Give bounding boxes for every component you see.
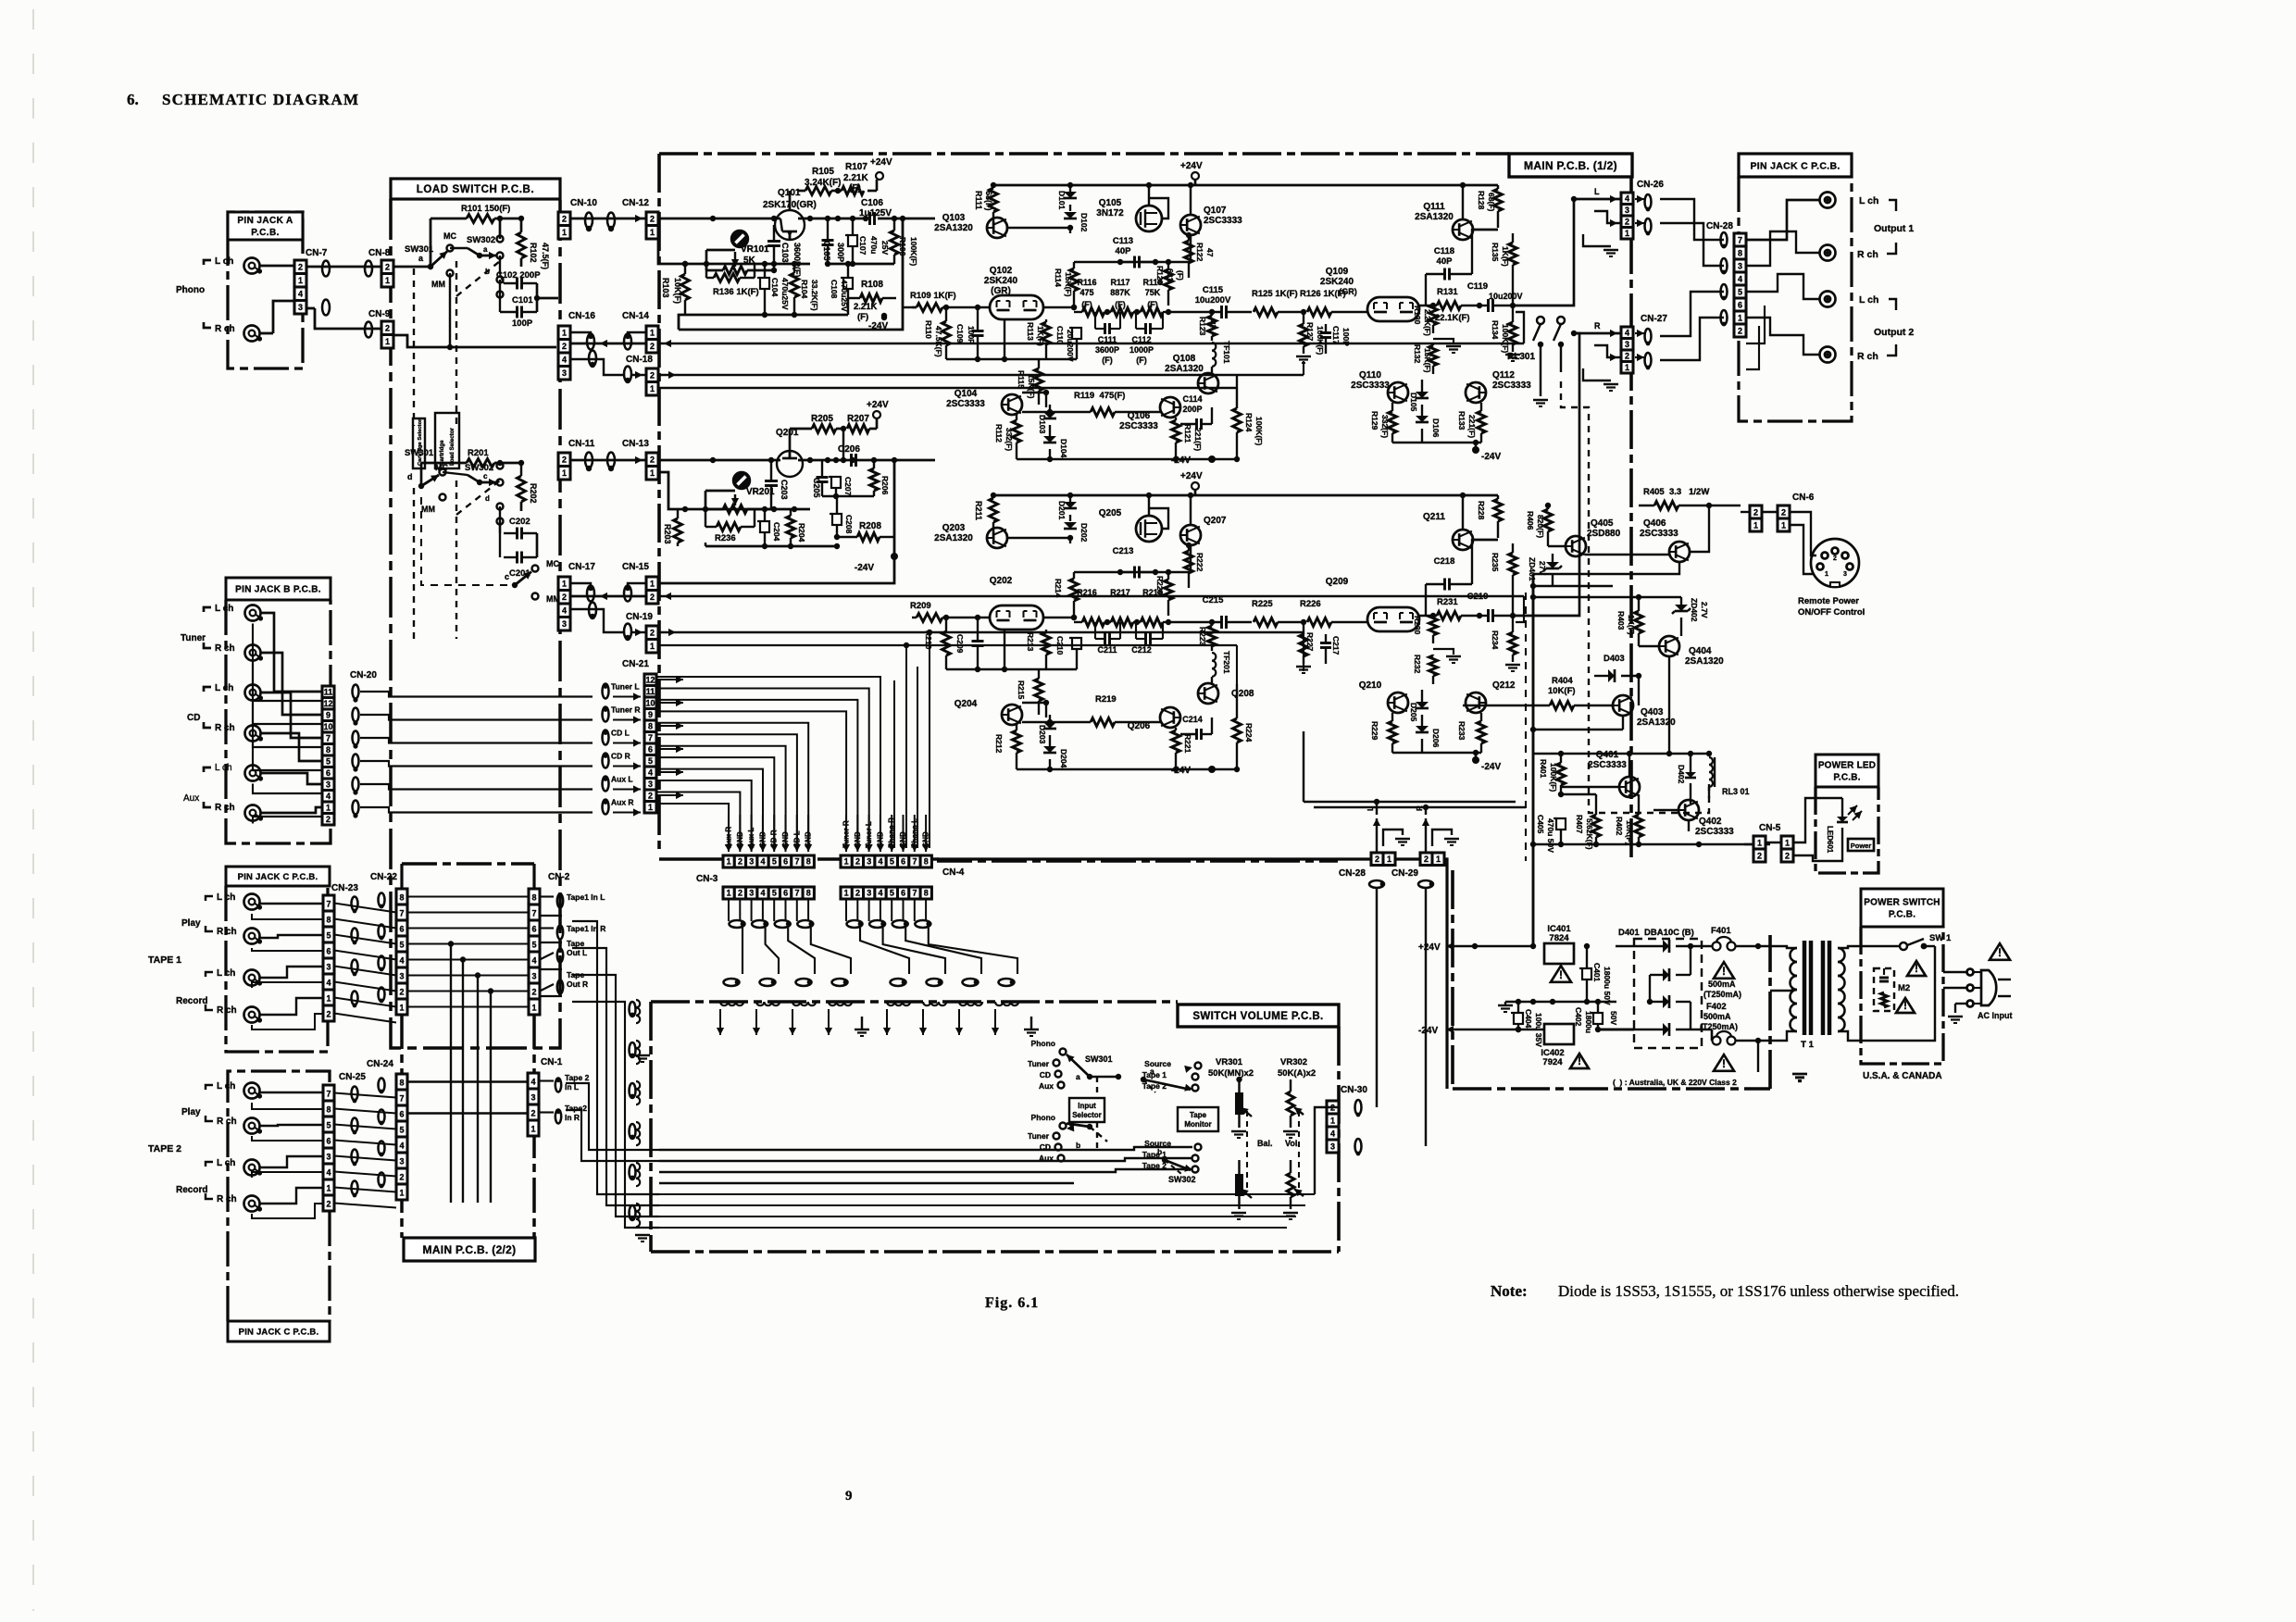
long bus wires mid bbox=[683, 796, 937, 811]
capacitor C211 bbox=[1095, 622, 1120, 655]
svg-text:22.1K(F): 22.1K(F) bbox=[1435, 313, 1469, 323]
top row gnds bbox=[806, 1017, 1039, 1036]
svg-text:!: ! bbox=[1578, 1054, 1581, 1067]
resistor R236 bbox=[705, 509, 755, 543]
svg-text:2SC3333: 2SC3333 bbox=[1351, 381, 1390, 391]
PIN JACK C P.C.B. tape2 box bbox=[228, 1071, 330, 1341]
svg-text:R134: R134 bbox=[1491, 320, 1500, 340]
svg-text:8: 8 bbox=[648, 721, 653, 730]
plug ovals CN-8 CN-9 bbox=[365, 261, 372, 338]
PIN JACK C P.C.B. tape1 box bbox=[226, 867, 330, 1052]
cd jack R bbox=[245, 726, 264, 742]
svg-text:4: 4 bbox=[879, 889, 883, 898]
capacitor C114 bbox=[1180, 394, 1212, 430]
loom wires CN-20 to CN-21 bbox=[360, 692, 593, 813]
transistor Q107 bbox=[1180, 182, 1242, 235]
-24V terminal ch2 bbox=[855, 553, 898, 573]
tape crossing wires bbox=[448, 941, 493, 1203]
wire feedback ch2 long4 bbox=[658, 645, 1237, 684]
svg-text:D401 DBA10C (B): D401 DBA10C (B) bbox=[1618, 928, 1694, 938]
connector CN-28 bottom bbox=[1339, 853, 1395, 879]
svg-text:5: 5 bbox=[772, 889, 777, 898]
svg-text:2SC3333: 2SC3333 bbox=[1588, 760, 1627, 770]
svg-text:Selector: Selector bbox=[1072, 1111, 1102, 1119]
svg-text:1: 1 bbox=[1753, 520, 1758, 530]
wire CN10-12 bbox=[570, 215, 646, 222]
transistor Q402 bbox=[1639, 798, 1734, 837]
capacitor C108 bbox=[830, 261, 853, 312]
svg-text:L ch: L ch bbox=[1859, 195, 1878, 206]
resistor R215 bbox=[1017, 669, 1043, 715]
svg-text:ON/OFF Control: ON/OFF Control bbox=[1798, 607, 1865, 618]
svg-text:R114: R114 bbox=[1054, 268, 1063, 287]
svg-text:2: 2 bbox=[326, 1200, 331, 1209]
resistor R123 bbox=[1198, 312, 1217, 341]
resistor R127 bbox=[1296, 309, 1325, 363]
svg-text:C402: C402 bbox=[1574, 1007, 1583, 1027]
tape1 rec jack R bbox=[244, 1007, 263, 1023]
svg-text:Out R: Out R bbox=[567, 979, 588, 989]
svg-text:Record: Record bbox=[176, 996, 207, 1006]
svg-text:+24V: +24V bbox=[870, 157, 892, 168]
tuner jack R bbox=[245, 645, 264, 661]
output labels bbox=[1857, 195, 1914, 362]
svg-text:500mA: 500mA bbox=[1708, 979, 1736, 989]
svg-text:CN-18: CN-18 bbox=[626, 355, 653, 365]
svg-text:2SC3333: 2SC3333 bbox=[1119, 421, 1158, 431]
capacitor C405 bbox=[1536, 802, 1566, 853]
svg-text:L ch: L ch bbox=[215, 763, 232, 773]
svg-text:1: 1 bbox=[650, 642, 655, 651]
svg-text:3: 3 bbox=[1625, 206, 1629, 215]
svg-text:40P: 40P bbox=[1116, 246, 1132, 256]
svg-text:Monitor: Monitor bbox=[1184, 1120, 1211, 1129]
svg-text:4: 4 bbox=[1738, 274, 1742, 283]
svg-text:+24V: +24V bbox=[1180, 161, 1203, 171]
svg-text:1: 1 bbox=[385, 337, 390, 346]
connector CN-24 bbox=[367, 1059, 407, 1200]
svg-text:R111: R111 bbox=[974, 191, 983, 210]
switch SW301 lower bbox=[405, 448, 448, 514]
svg-text:Phono: Phono bbox=[1031, 1039, 1055, 1048]
capacitor C201 bbox=[500, 521, 537, 579]
resistor R222 bbox=[1185, 545, 1205, 588]
svg-text:Q402: Q402 bbox=[1699, 817, 1722, 827]
svg-text:Q107: Q107 bbox=[1204, 206, 1227, 216]
svg-text:Q110: Q110 bbox=[1359, 370, 1381, 381]
svg-text:C107: C107 bbox=[858, 236, 867, 256]
plug ovals CN-16/14/18 bbox=[587, 333, 631, 383]
resistor R125 bbox=[1252, 289, 1305, 317]
+24V terminal 1 bbox=[1180, 471, 1203, 495]
svg-text:Note:: Note: bbox=[1491, 1282, 1528, 1300]
resistor R217 bbox=[1104, 588, 1133, 627]
svg-text:POWER SWITCH: POWER SWITCH bbox=[1864, 898, 1940, 908]
svg-text:50K(A)x2: 50K(A)x2 bbox=[1278, 1068, 1316, 1079]
capacitor C215 bbox=[1168, 595, 1252, 629]
wire CN17-15 bbox=[570, 583, 646, 600]
svg-text:3: 3 bbox=[1330, 1142, 1335, 1151]
svg-text:50K(MN)x2: 50K(MN)x2 bbox=[1208, 1068, 1254, 1079]
svg-text:2: 2 bbox=[399, 1173, 404, 1182]
svg-text:Fig. 6.1: Fig. 6.1 bbox=[985, 1295, 1039, 1311]
tape monitor source a bbox=[1141, 1059, 1202, 1092]
capacitor C204 bbox=[757, 509, 781, 546]
wire sw301 mm drop bbox=[449, 273, 451, 347]
output jack 1L bbox=[1820, 193, 1836, 208]
capacitor C119 bbox=[1467, 281, 1523, 312]
svg-text:Tape: Tape bbox=[567, 939, 584, 948]
svg-text:R121: R121 bbox=[1183, 424, 1192, 443]
svg-text:1: 1 bbox=[385, 276, 390, 285]
svg-text:2: 2 bbox=[1757, 851, 1762, 860]
svg-text:(F): (F) bbox=[857, 312, 868, 322]
resistor R116 bbox=[1074, 278, 1104, 317]
svg-text:500mA: 500mA bbox=[1703, 1012, 1731, 1021]
svg-text:CN-4: CN-4 bbox=[942, 867, 965, 878]
svg-text:L ch: L ch bbox=[217, 1081, 235, 1092]
capacitor C218 bbox=[1426, 540, 1498, 616]
pot VR301 label bbox=[1208, 1057, 1254, 1079]
connector CN-3 lower bbox=[723, 887, 814, 899]
wire signal row bbox=[1043, 615, 1077, 620]
connector CN-6 bbox=[1741, 493, 1815, 531]
svg-text:-24V: -24V bbox=[1418, 1026, 1438, 1036]
-24V feed arrow bbox=[1418, 1026, 1634, 1036]
svg-text:D204: D204 bbox=[1059, 749, 1068, 768]
svg-text:L ch: L ch bbox=[215, 256, 233, 267]
wire rail right bbox=[1195, 493, 1498, 530]
plug ovals CN-25 bbox=[352, 1087, 358, 1198]
wire network outer ch1 bbox=[658, 218, 917, 330]
svg-text:MM: MM bbox=[431, 280, 445, 289]
svg-text:C101: C101 bbox=[512, 295, 533, 306]
connector CN-12 bbox=[622, 198, 658, 239]
svg-text:1: 1 bbox=[1757, 838, 1762, 847]
svg-text:7: 7 bbox=[399, 1094, 404, 1104]
connector CN-27 bbox=[1621, 314, 1667, 373]
svg-text:P.C.B.: P.C.B. bbox=[251, 228, 280, 238]
connector CN-8 bbox=[368, 248, 393, 287]
svg-text:In R: In R bbox=[565, 1113, 580, 1122]
svg-text:R402: R402 bbox=[1615, 817, 1624, 836]
wires below CN-3 CN-4 bbox=[729, 899, 926, 921]
transistor Q103 bbox=[934, 213, 1073, 238]
switch SW302 lower bbox=[443, 463, 504, 525]
svg-text:2SC3333: 2SC3333 bbox=[1492, 381, 1531, 391]
plug ovals CN-17/15/19 bbox=[587, 585, 631, 641]
resistor R233 bbox=[1457, 713, 1486, 753]
resistor R132 bbox=[1413, 339, 1461, 374]
bal vol labels bbox=[1257, 1139, 1300, 1148]
wire CN-9 to lower switch bbox=[393, 335, 556, 350]
svg-text:D205: D205 bbox=[1409, 703, 1418, 722]
svg-text:2: 2 bbox=[650, 593, 655, 602]
svg-text:Tape1 In L: Tape1 In L bbox=[567, 892, 605, 902]
svg-text:475: 475 bbox=[1079, 288, 1093, 297]
svg-text:MM: MM bbox=[421, 505, 435, 514]
transformer T1 bbox=[1770, 941, 1863, 1050]
svg-text:R129: R129 bbox=[1370, 411, 1379, 430]
svg-text:R117: R117 bbox=[1110, 278, 1129, 287]
svg-text:1000P: 1000P bbox=[1129, 345, 1154, 355]
svg-text:R215: R215 bbox=[1017, 680, 1026, 700]
svg-text:1: 1 bbox=[1781, 520, 1786, 530]
resistor R230 bbox=[1413, 613, 1438, 643]
svg-text:a: a bbox=[1076, 1072, 1080, 1081]
svg-text:CN-21: CN-21 bbox=[622, 659, 649, 669]
svg-text:3: 3 bbox=[562, 619, 567, 629]
svg-text:68(F): 68(F) bbox=[1487, 193, 1496, 211]
svg-text:1: 1 bbox=[650, 580, 655, 589]
svg-text:CN-3: CN-3 bbox=[696, 874, 718, 884]
svg-text:10: 10 bbox=[645, 698, 655, 707]
svg-text:TAPE 2: TAPE 2 bbox=[148, 1143, 181, 1154]
wire power rails mid bbox=[1526, 574, 1613, 946]
DIN socket bbox=[1790, 512, 1859, 587]
svg-text:!: ! bbox=[1998, 946, 2002, 959]
svg-text:CN-27: CN-27 bbox=[1641, 314, 1667, 324]
svg-text:6: 6 bbox=[326, 1137, 331, 1146]
wire bbox=[260, 266, 295, 333]
svg-text:R208: R208 bbox=[859, 521, 881, 531]
svg-text:C115: C115 bbox=[1203, 285, 1224, 295]
svg-text:2.21K: 2.21K bbox=[854, 302, 877, 312]
svg-text:3: 3 bbox=[326, 1153, 331, 1162]
pot VR302 lower bbox=[1283, 1160, 1304, 1219]
SWITCH VOLUME P.C.B. box bbox=[651, 1002, 1339, 1252]
svg-text:1: 1 bbox=[650, 329, 655, 338]
warning triangle sw bbox=[1896, 961, 1926, 1013]
svg-text:1: 1 bbox=[1625, 363, 1629, 372]
svg-text:8: 8 bbox=[806, 889, 811, 898]
resistor R407 bbox=[1561, 794, 1601, 850]
svg-text:LOAD SWITCH P.C.B.: LOAD SWITCH P.C.B. bbox=[417, 184, 535, 195]
svg-text:2SC3333: 2SC3333 bbox=[1204, 216, 1242, 226]
svg-text:R233: R233 bbox=[1457, 721, 1466, 741]
svg-text:5: 5 bbox=[326, 931, 331, 941]
resistor R235 bbox=[1491, 543, 1517, 618]
svg-text:R125 1K(F): R125 1K(F) bbox=[1252, 289, 1298, 299]
svg-text:SW 1: SW 1 bbox=[1929, 933, 1952, 943]
transformer TF101 bbox=[1212, 341, 1231, 374]
transistor Q112 bbox=[1466, 370, 1531, 403]
resistor R210 bbox=[924, 615, 951, 669]
resistor R130 bbox=[1413, 303, 1438, 336]
svg-text:C206: C206 bbox=[838, 444, 860, 455]
svg-text:R ch: R ch bbox=[217, 1005, 237, 1016]
capacitor C203 bbox=[765, 457, 789, 509]
svg-text:c: c bbox=[505, 572, 509, 581]
svg-text:Q204: Q204 bbox=[955, 699, 978, 709]
tape2 in labels bbox=[555, 1073, 590, 1124]
cartridge load selector tag bbox=[435, 413, 459, 468]
transistor Q204 bbox=[955, 699, 1022, 725]
connector CN-3 bbox=[696, 855, 814, 884]
svg-text:4: 4 bbox=[1625, 193, 1629, 203]
svg-text:C208: C208 bbox=[844, 515, 854, 534]
tape1 in labels bbox=[540, 892, 605, 994]
svg-text:CN-26: CN-26 bbox=[1637, 180, 1664, 190]
svg-text:Q111: Q111 bbox=[1423, 202, 1445, 212]
resistor R221 bbox=[1172, 728, 1193, 769]
pot VR101 bbox=[706, 231, 777, 275]
svg-text:6: 6 bbox=[783, 857, 788, 867]
svg-text:100K(F): 100K(F) bbox=[1316, 326, 1325, 355]
selector dashed links lower bbox=[414, 480, 500, 639]
svg-text:R223: R223 bbox=[1198, 627, 1207, 646]
svg-text:2: 2 bbox=[531, 988, 536, 997]
resistor R211 bbox=[974, 495, 998, 538]
wire +24V rail bbox=[991, 182, 1195, 188]
transformer TF201 bbox=[1212, 651, 1231, 684]
resistor R219 bbox=[1022, 694, 1160, 727]
svg-text:R ch: R ch bbox=[215, 324, 235, 334]
selector labels b bbox=[1028, 1113, 1066, 1163]
svg-text:Tuner: Tuner bbox=[1028, 1059, 1050, 1068]
diode D103 bbox=[1038, 405, 1056, 434]
phono jack L bbox=[244, 258, 263, 274]
wire q104 row bbox=[1022, 684, 1049, 717]
diode D101 bbox=[1057, 185, 1077, 211]
diode D105 bbox=[1409, 380, 1429, 412]
svg-text:1: 1 bbox=[844, 889, 849, 898]
wire q102 out bbox=[946, 548, 1077, 672]
svg-text:Q112: Q112 bbox=[1492, 370, 1515, 381]
resistor R223 bbox=[1198, 622, 1217, 651]
svg-text:VR101: VR101 bbox=[741, 244, 769, 255]
output jack 1R bbox=[1820, 245, 1836, 261]
svg-text:6: 6 bbox=[399, 925, 404, 934]
svg-text:7: 7 bbox=[326, 733, 331, 742]
resistor R124 bbox=[1233, 374, 1265, 459]
wires tape2 jacks bbox=[252, 1092, 323, 1218]
svg-text:Q209: Q209 bbox=[1326, 577, 1349, 587]
resistor R135 bbox=[1491, 233, 1517, 308]
wire rail right bbox=[1195, 182, 1498, 219]
resistor R225 bbox=[1252, 599, 1305, 627]
svg-text:R119 475(F): R119 475(F) bbox=[1074, 391, 1125, 401]
svg-text:332(F): 332(F) bbox=[1004, 428, 1014, 451]
phono jack R bbox=[244, 326, 263, 342]
svg-text:R123: R123 bbox=[1198, 317, 1207, 336]
svg-text:3: 3 bbox=[749, 857, 754, 867]
svg-text:R221: R221 bbox=[1183, 734, 1192, 754]
CN-27 wires bbox=[1571, 321, 1652, 391]
resistor R203 bbox=[663, 509, 682, 546]
svg-text:7: 7 bbox=[794, 889, 799, 898]
svg-text:R113: R113 bbox=[1026, 322, 1035, 341]
svg-text:R407: R407 bbox=[1575, 815, 1584, 834]
svg-text:2: 2 bbox=[562, 455, 567, 465]
tape2 play jack R bbox=[244, 1118, 263, 1134]
svg-text:CN-11: CN-11 bbox=[568, 439, 595, 449]
svg-text:+24V: +24V bbox=[1180, 471, 1203, 481]
svg-text:U.S.A. & CANADA: U.S.A. & CANADA bbox=[1863, 1071, 1942, 1081]
svg-text:2: 2 bbox=[1625, 217, 1629, 226]
svg-text:SW302: SW302 bbox=[467, 235, 495, 245]
svg-text:CN-12: CN-12 bbox=[622, 198, 649, 208]
resistor R120 bbox=[1155, 259, 1185, 306]
svg-text:R ch: R ch bbox=[215, 723, 235, 733]
svg-text:5: 5 bbox=[531, 941, 536, 950]
svg-text:L ch: L ch bbox=[217, 1158, 235, 1168]
svg-text:Tape2: Tape2 bbox=[565, 1104, 587, 1113]
svg-text:RL301: RL301 bbox=[1507, 352, 1535, 362]
svg-text:2: 2 bbox=[385, 263, 390, 272]
svg-text:MAIN P.C.B. (2/2): MAIN P.C.B. (2/2) bbox=[423, 1243, 517, 1256]
svg-text:R214: R214 bbox=[1054, 579, 1063, 598]
svg-text:Out L: Out L bbox=[567, 948, 587, 957]
connector CN-5 bbox=[1744, 823, 1793, 862]
warning triangle 1 bbox=[1551, 966, 1571, 982]
diode D202 bbox=[1064, 522, 1089, 543]
svg-text:7: 7 bbox=[912, 857, 917, 867]
svg-text:8: 8 bbox=[326, 1105, 331, 1115]
svg-text:3: 3 bbox=[562, 368, 567, 378]
svg-text:1800u: 1800u bbox=[1584, 1011, 1593, 1033]
plug ovals CN-7 bbox=[322, 261, 330, 316]
AC plug bbox=[1943, 969, 2013, 1024]
svg-text:Q203: Q203 bbox=[942, 523, 966, 533]
vr wires bbox=[1165, 1066, 1291, 1160]
svg-text:C213: C213 bbox=[1113, 546, 1134, 556]
svg-text:D206: D206 bbox=[1431, 729, 1441, 748]
connector CN-7 bbox=[294, 248, 328, 314]
svg-text:3: 3 bbox=[867, 889, 871, 898]
svg-text:Q105: Q105 bbox=[1099, 198, 1122, 208]
svg-text:33.2K(F): 33.2K(F) bbox=[810, 280, 819, 311]
resistor R206 bbox=[822, 457, 890, 499]
svg-text:Q207: Q207 bbox=[1204, 516, 1227, 526]
+24V feed arrow bbox=[1418, 870, 1536, 953]
plug ovals CN-20 bbox=[353, 685, 359, 818]
svg-text:CN-9: CN-9 bbox=[368, 309, 391, 319]
capacitor C404 bbox=[1511, 999, 1543, 1047]
svg-text:Q404: Q404 bbox=[1689, 646, 1712, 656]
svg-text:VR301: VR301 bbox=[1216, 1057, 1243, 1067]
svg-text:R133: R133 bbox=[1457, 411, 1466, 430]
svg-text:Play: Play bbox=[181, 918, 201, 929]
svg-text:1K(F): 1K(F) bbox=[1627, 615, 1636, 635]
svg-text:Cartridge: Cartridge bbox=[439, 440, 445, 466]
connector CN-22 bbox=[370, 872, 407, 1015]
transistor Q109 bbox=[1320, 267, 1419, 321]
svg-text:R105: R105 bbox=[812, 167, 834, 177]
svg-text:2: 2 bbox=[1424, 855, 1429, 864]
resistor R112 bbox=[994, 415, 1021, 459]
resistor R102 bbox=[518, 231, 551, 269]
svg-text:C212: C212 bbox=[1131, 645, 1152, 655]
wire network bottom ch2 bbox=[658, 460, 894, 583]
wire bias ch2 bbox=[658, 472, 810, 512]
svg-text:5: 5 bbox=[326, 756, 331, 766]
transistor Q104 bbox=[946, 389, 1022, 415]
tape1 play jack R bbox=[244, 929, 263, 944]
svg-text:C404: C404 bbox=[1524, 1009, 1533, 1029]
svg-text:Q405: Q405 bbox=[1591, 518, 1614, 529]
svg-text:100K(F): 100K(F) bbox=[1254, 417, 1264, 445]
plug ovals CN-23 bbox=[352, 897, 358, 1008]
capacitor C110 bbox=[1055, 307, 1081, 362]
svg-text:R130: R130 bbox=[1413, 306, 1422, 325]
resistor R119 bbox=[1022, 391, 1160, 417]
svg-text:2SC3333: 2SC3333 bbox=[1695, 827, 1734, 837]
svg-text:Tuner L: Tuner L bbox=[611, 682, 640, 692]
tape2 labels bbox=[148, 1081, 237, 1204]
svg-text:R115: R115 bbox=[1017, 370, 1026, 389]
svg-text:100K(F): 100K(F) bbox=[909, 237, 918, 266]
